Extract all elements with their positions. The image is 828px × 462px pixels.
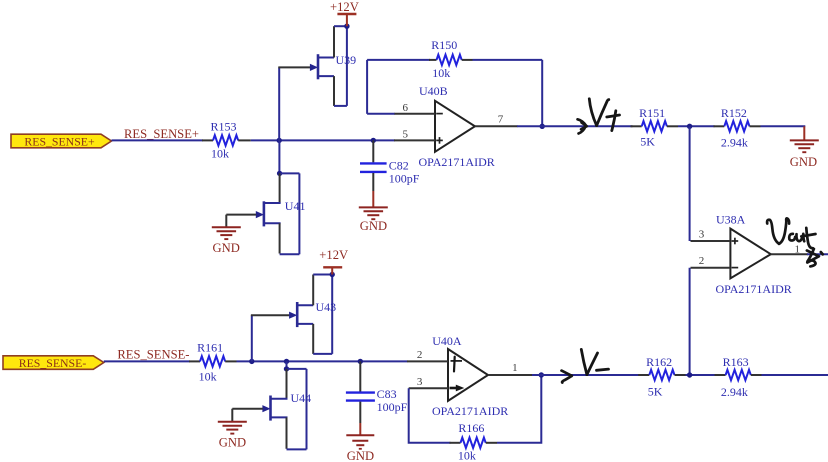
svg-text:RES_SENSE-: RES_SENSE-	[117, 348, 189, 362]
svg-text:RES_SENSE-: RES_SENSE-	[19, 356, 87, 370]
wire feedback top (right of R150)	[473, 59, 543, 61]
wire feedback left riser	[366, 60, 368, 114]
hand annotation: V+	[589, 99, 619, 131]
svg-text:GND: GND	[213, 241, 240, 255]
svg-text:R161: R161	[197, 340, 223, 354]
svg-text:2.94k: 2.94k	[721, 136, 748, 150]
wire U39 gate riser	[278, 67, 280, 140]
resistor R163	[715, 355, 762, 399]
svg-text:1: 1	[512, 362, 518, 374]
pin 2 (U40A)	[407, 360, 448, 362]
wire R166 to output riser	[497, 375, 541, 443]
power +12V (U39)	[330, 0, 359, 26]
pin 3 (U40A)	[409, 387, 448, 389]
wire V- net (output to R162)	[532, 374, 639, 376]
svg-text:5: 5	[403, 128, 409, 140]
svg-text:R151: R151	[639, 106, 665, 120]
wire RES_SENSE+ net (port to R153)	[112, 139, 204, 141]
wire U38A pin3 riser	[689, 126, 691, 241]
wire RES_SENSE- net (port to R161)	[104, 360, 190, 362]
svg-text:U38A: U38A	[716, 212, 746, 226]
node junction U43 gate	[249, 359, 254, 364]
svg-text:7: 7	[498, 114, 504, 126]
hand annotation: arrow mark inside U40A pin3	[450, 385, 465, 392]
hand annotation: plus mark inside U40A	[453, 357, 456, 372]
pin 7 (U40B output)	[475, 125, 518, 127]
svg-text:+12V: +12V	[330, 0, 359, 14]
wire V+ net (R151 to R152)	[678, 125, 715, 127]
hand annotation: V-	[581, 349, 608, 374]
wire RES_SENSE+ net (R153 to op-amp pin 5)	[251, 139, 395, 141]
op-amp U38A	[716, 212, 792, 296]
svg-text:3: 3	[417, 376, 423, 388]
transistor U41	[226, 173, 305, 254]
svg-text:5K: 5K	[640, 135, 655, 149]
svg-text:U41: U41	[285, 199, 306, 213]
ground (right of R152)	[790, 140, 819, 169]
wire U41 drain riser	[278, 140, 280, 173]
svg-text:R153: R153	[211, 120, 237, 134]
pin 3 (U38A)	[691, 240, 731, 242]
svg-text:3: 3	[699, 229, 705, 241]
node +12V/U43 junction	[330, 272, 335, 277]
op-amp U40B	[419, 84, 495, 169]
pin 5 (U40B)	[394, 139, 435, 141]
svg-text:10k: 10k	[199, 369, 217, 383]
resistor R166	[450, 421, 498, 462]
capacitor C82	[360, 140, 420, 191]
wire feedback right riser	[541, 60, 543, 126]
svg-text:10k: 10k	[211, 147, 229, 161]
svg-text:U44: U44	[291, 391, 312, 405]
svg-text:U43: U43	[316, 300, 337, 314]
svg-text:+12V: +12V	[319, 248, 348, 262]
svg-text:100pF: 100pF	[377, 400, 408, 414]
port RES_SENSE+	[11, 134, 112, 148]
svg-text:C82: C82	[389, 158, 409, 172]
ground (U41 gate)	[212, 227, 241, 255]
svg-text:2: 2	[699, 255, 705, 267]
svg-text:R163: R163	[723, 355, 749, 369]
node U44 drain junction	[284, 366, 289, 371]
svg-text:2.94k: 2.94k	[721, 385, 748, 399]
svg-text:100pF: 100pF	[389, 172, 420, 186]
svg-text:U40B: U40B	[419, 84, 448, 98]
svg-text:GND: GND	[790, 155, 817, 169]
transistor U44	[232, 369, 311, 450]
wire pin 6 stub	[367, 113, 394, 115]
transistor U39	[278, 26, 356, 106]
node U40A output junction	[539, 372, 544, 377]
resistor R150	[429, 38, 473, 80]
hand annotation: arrow before V-	[562, 371, 572, 383]
op-amp U40A	[432, 334, 508, 418]
wire U43 gate riser	[251, 315, 253, 361]
pin 1 (U40A output)	[488, 374, 533, 376]
svg-text:R162: R162	[646, 355, 672, 369]
wire V+ net (output to R151)	[517, 125, 633, 127]
hand annotation: Vout with arrow	[767, 218, 823, 266]
svg-text:U40A: U40A	[432, 334, 462, 348]
node output junction (U40B out / feedback)	[540, 124, 545, 129]
ground (C82)	[359, 191, 388, 233]
wire U44 drain riser	[286, 361, 288, 369]
svg-text:6: 6	[403, 102, 409, 114]
pin 1 (U38A output)	[771, 253, 808, 255]
svg-text:OPA2171AIDR: OPA2171AIDR	[419, 155, 495, 169]
hand annotation: arrow before V+	[578, 119, 587, 133]
wire U38A output to right edge	[807, 253, 828, 255]
ground (U44 gate)	[218, 422, 247, 450]
capacitor C83	[346, 361, 408, 423]
svg-text:GND: GND	[360, 219, 387, 233]
svg-text:GND: GND	[219, 435, 246, 449]
svg-text:R152: R152	[721, 106, 747, 120]
resistor R153	[202, 120, 251, 161]
pin 2 (U38A)	[691, 267, 731, 269]
resistor R151	[631, 106, 679, 149]
node junction R151/R152/U38A pin3	[687, 124, 692, 129]
power +12V (U43)	[319, 248, 348, 275]
port RES_SENSE-	[3, 356, 104, 370]
wire feedback top (left of R150)	[367, 59, 430, 61]
svg-text:1: 1	[795, 243, 801, 255]
svg-text:10k: 10k	[458, 448, 476, 462]
svg-text:RES_SENSE+: RES_SENSE+	[124, 127, 199, 141]
resistor R161	[189, 340, 237, 383]
svg-text:RES_SENSE+: RES_SENSE+	[24, 134, 95, 148]
node +12V/U39 junction	[344, 24, 349, 29]
wire V- net (R163 to right edge)	[762, 374, 828, 376]
pin 6 (U40B)	[394, 113, 435, 115]
wire V- net (R162 to R163)	[686, 374, 716, 376]
wire pin 3 to R166 loop	[409, 388, 451, 443]
node A junction (R153 / U39 gate / U41)	[277, 138, 282, 143]
svg-text:GND: GND	[347, 449, 374, 462]
node C83 junction	[358, 359, 363, 364]
node U41 drain junction	[277, 171, 282, 176]
node C82 junction	[371, 138, 376, 143]
wire U38A pin2 riser	[689, 268, 691, 376]
wire R152 to ground	[761, 125, 806, 127]
svg-text:U39: U39	[336, 53, 357, 67]
wire RES_SENSE- net (R161 to op-amp pin 2)	[237, 360, 408, 362]
svg-text:OPA2171AIDR: OPA2171AIDR	[716, 282, 792, 296]
svg-text:OPA2171AIDR: OPA2171AIDR	[432, 404, 508, 418]
svg-text:C83: C83	[377, 387, 397, 401]
node junction R162/R163/U38A pin2	[687, 372, 692, 377]
svg-text:2: 2	[417, 349, 423, 361]
ground (C83)	[346, 423, 374, 462]
svg-text:R150: R150	[431, 38, 457, 52]
resistor R152	[714, 106, 761, 150]
svg-text:10k: 10k	[432, 66, 450, 80]
node junction U44 top	[284, 359, 289, 364]
svg-text:R166: R166	[458, 421, 484, 435]
svg-text:5K: 5K	[648, 385, 663, 399]
resistor R162	[638, 355, 685, 399]
transistor U43	[251, 275, 336, 354]
